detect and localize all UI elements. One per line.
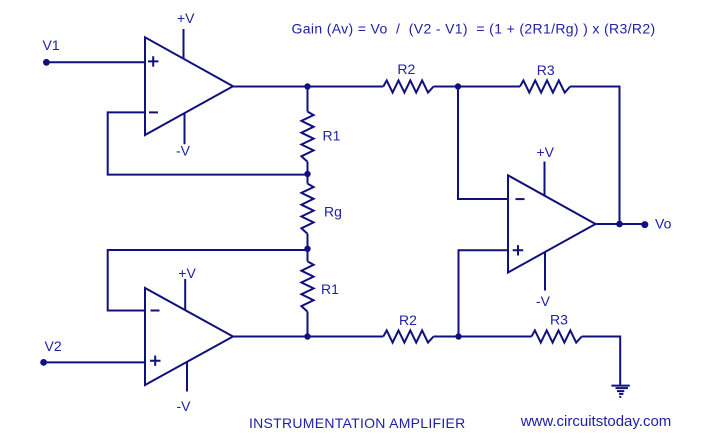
wire R3 to output node — [570, 87, 619, 225]
wire R1 top lead — [307, 87, 309, 112]
node R2/R3/U3 non-inverting branch — [455, 333, 461, 339]
svg-text:R3: R3 — [550, 312, 568, 328]
wire U3 - input branch — [458, 87, 508, 200]
U2 +V supply pin — [184, 279, 186, 311]
wire V2 to U2 + input — [44, 361, 145, 363]
wire U1 feedback (- input to R1/Rg node) — [108, 112, 308, 174]
op-amp U2 — [145, 288, 233, 385]
U1 +V supply pin — [183, 29, 185, 60]
resistor R3 (top) — [520, 80, 570, 92]
svg-text:-V: -V — [536, 293, 551, 309]
svg-text:R1: R1 — [323, 128, 341, 144]
svg-text:+V: +V — [537, 144, 555, 160]
svg-text:Gain (Av) = Vo / (V2 - V1): Gain (Av) = Vo / (V2 - V1) = (1 + (2R1/R… — [292, 21, 656, 37]
resistor R2 (top) — [383, 80, 433, 92]
terminal V2 — [40, 359, 47, 366]
wire U3 output — [596, 223, 646, 225]
svg-text:-V: -V — [176, 143, 191, 159]
svg-text:+V: +V — [177, 10, 195, 26]
resistor R2 (bottom) — [383, 330, 433, 342]
node U3 output / feedback — [616, 221, 623, 228]
resistor R1 (bottom) — [301, 261, 313, 311]
wire U3 + input branch — [459, 250, 509, 336]
wire R3 to ground — [582, 337, 621, 385]
svg-text:www.circuitstoday.com: www.circuitstoday.com — [520, 413, 672, 430]
resistor Rg — [301, 184, 313, 234]
terminal V1 — [43, 59, 50, 66]
wire U1 output to R2 — [232, 86, 383, 88]
wire R2 to R3 — [434, 86, 521, 88]
svg-text:V1: V1 — [43, 37, 60, 53]
U2 -V supply pin — [186, 362, 188, 392]
U3 +V supply pin — [544, 162, 546, 197]
wire R1 bottom lead — [307, 162, 309, 184]
svg-text:R2: R2 — [399, 312, 417, 328]
svg-text:Vo: Vo — [655, 216, 672, 232]
resistor R3 (bottom) — [532, 330, 582, 342]
node R1/Rg junction — [304, 171, 310, 177]
op-amp U3 — [508, 175, 596, 272]
wire R1 bottom to output rail — [307, 312, 309, 337]
ground — [611, 386, 629, 397]
node R2/R3/U3 inverting branch — [455, 83, 461, 89]
U1 -V supply pin — [184, 113, 186, 144]
node U1 output / R1 top — [304, 83, 310, 89]
U3 -V supply pin — [544, 252, 546, 291]
op-amp U1 — [145, 37, 233, 135]
resistor R1 (top) — [301, 112, 313, 162]
svg-text:INSTRUMENTATION AMPLIFIER: INSTRUMENTATION AMPLIFIER — [249, 415, 466, 431]
terminal Vo — [641, 221, 648, 228]
svg-text:-V: -V — [177, 398, 192, 414]
svg-text:R3: R3 — [537, 62, 555, 78]
wire U2 feedback (- input to Rg/R1 node) — [108, 250, 308, 311]
node R1 / U2 output rail — [304, 333, 310, 339]
svg-text:R2: R2 — [397, 61, 415, 77]
svg-text:+V: +V — [178, 265, 196, 281]
node Rg/R1 junction — [304, 246, 310, 252]
wire R2 to R3 (bottom) — [434, 336, 532, 338]
svg-text:Rg: Rg — [324, 204, 342, 220]
wire V1 to U1 + input — [46, 61, 145, 63]
wire U2 output to R2 — [232, 336, 383, 338]
wire Rg to R1 bottom — [307, 234, 309, 262]
svg-text:R1: R1 — [321, 281, 339, 297]
svg-text:V2: V2 — [45, 338, 62, 354]
